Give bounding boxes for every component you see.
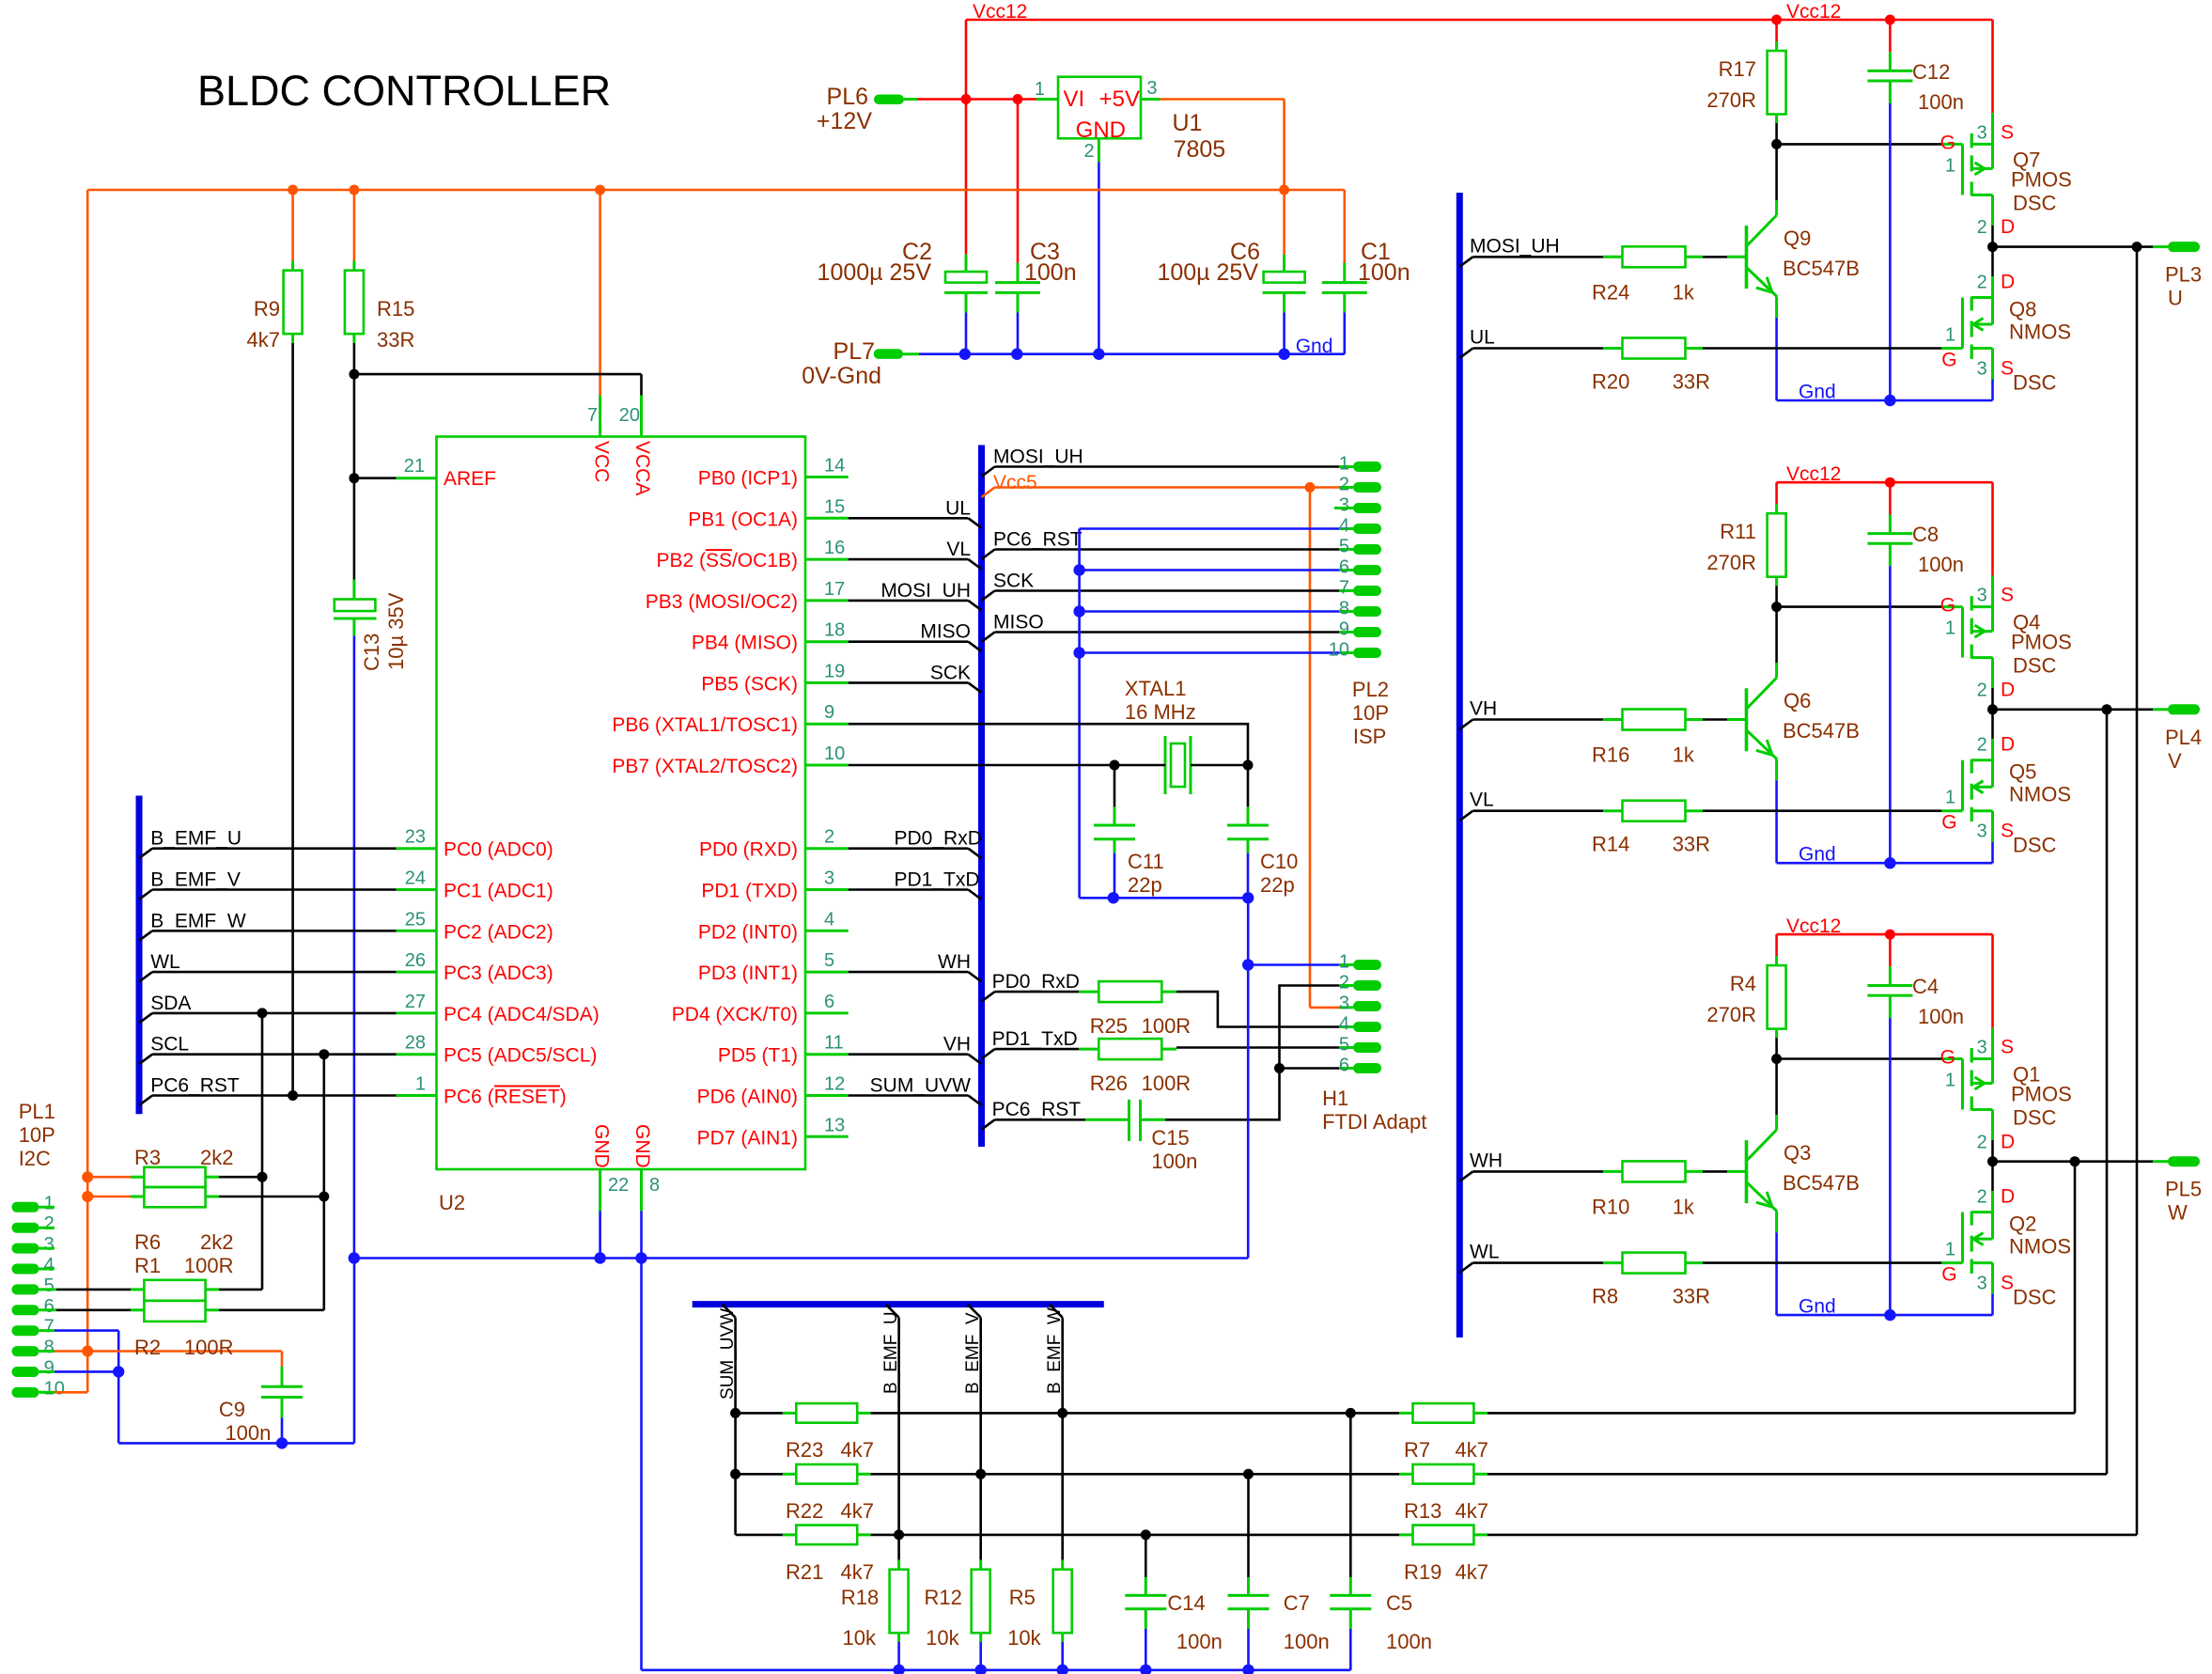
wire gnd up to rail	[353, 1259, 356, 1444]
node C11 gnd	[1108, 892, 1119, 903]
transistor Q7 PMOS DSC	[1941, 143, 1962, 146]
svg-text:V: V	[2168, 749, 2182, 773]
svg-text:PD7 (AIN1): PD7 (AIN1)	[697, 1127, 798, 1149]
svg-text:DSC: DSC	[2013, 654, 2057, 678]
svg-text:1: 1	[415, 1074, 426, 1095]
capacitor C4 100n	[1889, 934, 1892, 966]
wire WH from PD3	[849, 971, 969, 974]
svg-text:4k7: 4k7	[247, 328, 280, 352]
svg-text:PD2 (INT0): PD2 (INT0)	[698, 921, 798, 943]
svg-text:10: 10	[1329, 640, 1349, 661]
svg-text:6: 6	[1339, 557, 1349, 578]
svg-text:4k7: 4k7	[1456, 1499, 1488, 1523]
wire output W	[1993, 1160, 2076, 1163]
svg-text:PB5 (SCK): PB5 (SCK)	[701, 673, 798, 695]
capacitor C13 10u 35V	[352, 580, 355, 600]
svg-text:1k: 1k	[1673, 743, 1695, 767]
svg-text:DSC: DSC	[2013, 371, 2057, 395]
pin 22 GND	[599, 1169, 601, 1212]
pin 15 PB1 (OC1A)	[805, 517, 849, 520]
svg-text:4k7: 4k7	[841, 1499, 874, 1523]
svg-text:+5V: +5V	[1099, 86, 1140, 112]
svg-text:6: 6	[824, 992, 834, 1012]
svg-text:6: 6	[1339, 1056, 1349, 1076]
svg-text:WL: WL	[150, 951, 180, 973]
svg-text:1: 1	[44, 1193, 55, 1213]
svg-text:U: U	[2168, 287, 2183, 310]
svg-text:24: 24	[405, 868, 426, 889]
svg-text:C13: C13	[360, 634, 383, 671]
svg-text:SUM_UVW: SUM_UVW	[718, 1308, 738, 1400]
svg-text:B_EMF_U: B_EMF_U	[150, 828, 241, 850]
svg-text:R13: R13	[1404, 1499, 1441, 1523]
svg-text:R5: R5	[1009, 1586, 1036, 1609]
svg-text:PD1 (TXD): PD1 (TXD)	[701, 881, 798, 902]
svg-text:100n: 100n	[1151, 1150, 1197, 1173]
svg-text:2: 2	[1977, 680, 1987, 700]
svg-text:4k7: 4k7	[1456, 1560, 1488, 1584]
svg-text:Vcc12: Vcc12	[1786, 1, 1841, 23]
node gate Q7	[1771, 139, 1782, 149]
svg-text:NMOS: NMOS	[2009, 783, 2071, 806]
svg-text:3: 3	[1977, 122, 1987, 143]
svg-text:1: 1	[1945, 155, 1955, 176]
svg-text:PD4 (XCK/T0): PD4 (XCK/T0)	[672, 1004, 798, 1025]
capacitor C6 100u 25V	[1283, 255, 1285, 272]
wire B_EMF_W drop	[1050, 1305, 1063, 1318]
svg-text:C11: C11	[1128, 850, 1164, 873]
wire PD0_RxD to R25	[982, 992, 995, 1001]
wire U2 GND pin22 to rail	[599, 1212, 601, 1259]
svg-text:6: 6	[44, 1296, 55, 1317]
pin 13 PD7 (AIN1)	[805, 1135, 849, 1138]
wire R7 to phase W	[1488, 1412, 2075, 1415]
node gnd C2	[959, 349, 971, 360]
capacitor C14 100n	[1145, 1535, 1147, 1577]
pin 27 PC4 (ADC4/SDA)	[397, 1011, 437, 1014]
svg-text:W: W	[2168, 1201, 2188, 1225]
resistor R4 270R	[1775, 934, 1778, 956]
svg-text:Q2: Q2	[2009, 1212, 2036, 1236]
svg-text:7: 7	[44, 1317, 55, 1338]
svg-text:PD3 (INT1): PD3 (INT1)	[698, 962, 798, 984]
resistor R21 4k7	[736, 1534, 783, 1537]
svg-text:B_EMF_W: B_EMF_W	[1045, 1307, 1065, 1394]
wire AREF	[354, 477, 397, 479]
wire gate Q5	[1703, 809, 1941, 812]
pin 7 VCC	[599, 396, 601, 437]
svg-text:PMOS: PMOS	[2011, 1083, 2072, 1106]
svg-text:B_EMF_V: B_EMF_V	[150, 869, 241, 891]
svg-text:GND: GND	[1076, 117, 1126, 143]
svg-text:22p: 22p	[1260, 873, 1295, 897]
wire SUM_UVW from PD6	[849, 1094, 969, 1097]
svg-text:Q5: Q5	[2009, 760, 2036, 784]
svg-text:D: D	[2001, 1186, 2015, 1208]
node R6/R2 SCL	[319, 1192, 329, 1202]
svg-text:10: 10	[44, 1378, 65, 1399]
pin 10 PB7 (XTAL2/TOSC2)	[805, 764, 849, 767]
transistor Q9 BC547B	[1459, 257, 1472, 266]
svg-text:33R: 33R	[1673, 370, 1710, 394]
svg-text:G: G	[1941, 350, 1956, 371]
microcontroller U2	[437, 437, 806, 1170]
wire H1 pin1 gnd	[1242, 959, 1254, 970]
svg-text:SDA: SDA	[150, 993, 191, 1014]
net Vcc12 stub V	[1777, 481, 1993, 484]
wire MISO to PL2 pin9	[982, 633, 995, 642]
svg-text:R25: R25	[1090, 1014, 1128, 1038]
wire C3 riser	[1017, 100, 1020, 263]
svg-text:U1: U1	[1173, 110, 1203, 136]
svg-text:100n: 100n	[1386, 1630, 1432, 1653]
svg-text:7: 7	[587, 405, 598, 426]
net Gnd V local	[1777, 862, 1993, 865]
terminal PL6 +12V	[874, 95, 904, 105]
pin 21 AREF	[397, 477, 437, 479]
node C14 tap	[1141, 1529, 1151, 1540]
pin3 stub PL2	[1334, 507, 1353, 509]
svg-text:100R: 100R	[1142, 1014, 1192, 1038]
svg-text:PC2 (ADC2): PC2 (ADC2)	[444, 921, 553, 943]
svg-text:SCL: SCL	[150, 1034, 189, 1056]
svg-text:Q8: Q8	[2009, 298, 2036, 321]
node Vcc5 R6	[82, 1191, 93, 1202]
svg-text:C8: C8	[1912, 523, 1939, 546]
resistor R12 10k	[979, 1560, 982, 1571]
wire R4 to gate junction	[1775, 1038, 1778, 1058]
svg-text:1k: 1k	[1673, 280, 1695, 304]
node C10 gnd	[1242, 892, 1254, 903]
svg-text:BC547B: BC547B	[1783, 719, 1860, 743]
wire SCL to PC5	[139, 1055, 152, 1064]
resistor R9 4k7	[291, 190, 294, 261]
wire phase U feedback vertical	[2136, 247, 2139, 1535]
svg-text:8: 8	[44, 1338, 55, 1358]
net gnd rail	[354, 1257, 1248, 1259]
svg-text:Vcc5: Vcc5	[993, 472, 1037, 493]
wire Vcc5 to U2 VCC pin	[599, 190, 601, 396]
net Gnd U local	[1777, 399, 1993, 402]
transistor Q6 BC547B	[1459, 720, 1472, 729]
pin 1 PC6 (RESET)	[397, 1094, 437, 1097]
svg-text:DSC: DSC	[2013, 834, 2057, 857]
svg-text:9: 9	[1339, 619, 1349, 640]
wire R6 to SCL	[206, 1196, 219, 1198]
svg-text:B_EMF_V: B_EMF_V	[963, 1312, 983, 1394]
svg-text:R6: R6	[134, 1230, 161, 1254]
pin 25 PC2 (ADC2)	[397, 930, 437, 932]
capacitor C2 1000u 25V	[965, 100, 968, 255]
capacitor C12 100n	[1889, 20, 1892, 52]
wire R15 to AREF/C13	[353, 343, 356, 580]
svg-text:R12: R12	[925, 1586, 962, 1609]
svg-text:DSC: DSC	[2013, 1106, 2057, 1130]
svg-text:2: 2	[1977, 1132, 1987, 1152]
svg-text:PB6 (XTAL1/TOSC1): PB6 (XTAL1/TOSC1)	[612, 714, 798, 736]
capacitor C10 22p	[1247, 765, 1250, 806]
svg-text:BC547B: BC547B	[1783, 1171, 1860, 1195]
wire R26 to H1 pin5	[1161, 1048, 1176, 1051]
svg-text:10: 10	[824, 743, 845, 764]
svg-text:R2: R2	[134, 1336, 161, 1359]
svg-text:100R: 100R	[184, 1336, 234, 1359]
wire PL1 pin8 Vcc5	[39, 1350, 55, 1353]
svg-text:2: 2	[1977, 1187, 1987, 1208]
svg-text:R21: R21	[786, 1560, 823, 1584]
transistor Q5 NMOS DSC	[1991, 710, 1994, 739]
svg-text:PL5: PL5	[2165, 1178, 2202, 1201]
svg-text:XTAL1: XTAL1	[1125, 677, 1187, 700]
svg-text:33R: 33R	[1673, 833, 1710, 856]
wire SDA to PC4	[139, 1013, 152, 1023]
node B_EMF_W R23 line	[1057, 1408, 1067, 1418]
svg-text:27: 27	[405, 992, 426, 1012]
pin 4 PD2 (INT0)	[805, 930, 849, 932]
wire WL to PC3	[139, 972, 152, 981]
svg-text:B_EMF_W: B_EMF_W	[150, 910, 246, 931]
svg-text:270R: 270R	[1706, 88, 1756, 112]
svg-text:10P: 10P	[19, 1123, 55, 1147]
svg-text:1k: 1k	[1673, 1195, 1695, 1218]
svg-text:DSC: DSC	[2013, 1286, 2057, 1309]
capacitor C11 22p	[1114, 765, 1116, 806]
svg-text:R16: R16	[1592, 743, 1629, 767]
svg-text:1: 1	[1339, 952, 1349, 973]
terminal PL5 W	[2168, 1156, 2200, 1166]
svg-text:C14: C14	[1167, 1591, 1205, 1615]
svg-text:R3: R3	[134, 1146, 161, 1169]
svg-text:270R: 270R	[1706, 551, 1756, 574]
node Vcc5 at R9	[288, 185, 298, 196]
svg-text:MISO: MISO	[920, 621, 971, 643]
svg-text:PD0 (RXD): PD0 (RXD)	[699, 839, 798, 861]
svg-text:R7: R7	[1404, 1438, 1430, 1462]
node VCCA junction	[349, 369, 359, 380]
overline RESET on PC6	[494, 1086, 560, 1087]
svg-text:100n: 100n	[1358, 259, 1410, 286]
wire U1 +5V pin 3	[1141, 98, 1161, 101]
svg-text:2: 2	[1339, 475, 1349, 495]
svg-text:PL4: PL4	[2165, 726, 2202, 749]
resistor R10 1k	[1623, 1161, 1686, 1181]
svg-text:B_EMF_U: B_EMF_U	[881, 1311, 901, 1394]
svg-text:5: 5	[1339, 537, 1349, 557]
svg-text:+12V: +12V	[817, 108, 872, 134]
svg-text:100n: 100n	[1176, 1630, 1223, 1653]
svg-text:14: 14	[824, 456, 845, 477]
capacitor C9 100n	[281, 1352, 284, 1368]
node C5 tap	[1346, 1408, 1356, 1418]
svg-text:2: 2	[1977, 735, 1987, 756]
svg-text:G: G	[1940, 595, 1955, 617]
net Gnd W local	[1777, 1314, 1993, 1317]
voltage regulator U1 7805	[1058, 77, 1141, 139]
wire gnd drop to rail	[1247, 898, 1250, 1258]
wire PL1 pin6 to R2	[39, 1308, 57, 1311]
svg-text:Gnd: Gnd	[1296, 336, 1333, 357]
svg-text:270R: 270R	[1706, 1003, 1756, 1026]
svg-text:S: S	[2001, 585, 2014, 606]
node SCL junction	[319, 1049, 329, 1059]
wire output V	[1993, 708, 2108, 711]
svg-text:4k7: 4k7	[841, 1560, 874, 1584]
wire VL from PB2	[849, 558, 969, 561]
wire R22 line to R13	[871, 1473, 1400, 1476]
svg-text:PD5 (T1): PD5 (T1)	[718, 1045, 798, 1067]
svg-text:12: 12	[824, 1074, 845, 1095]
wire R1 to SDA vertical	[206, 1288, 219, 1291]
svg-text:100R: 100R	[1142, 1072, 1192, 1095]
svg-text:PL7: PL7	[833, 338, 875, 365]
resistor R14 33R	[1459, 811, 1472, 821]
node gnd C3	[1011, 349, 1022, 360]
svg-text:Vcc12: Vcc12	[973, 1, 1027, 23]
pin 16 PB2 (SS/OC1B)	[805, 558, 849, 561]
svg-text:GND: GND	[631, 1124, 653, 1168]
pin 2 PD0 (RXD)	[805, 847, 849, 850]
wire PL1 pin7 gnd	[39, 1329, 55, 1332]
svg-text:R10: R10	[1592, 1195, 1629, 1218]
pin 19 PB5 (SCK)	[805, 681, 849, 684]
wire PB6 to crystal	[849, 724, 1248, 765]
svg-text:PC6_RST: PC6_RST	[992, 1099, 1082, 1120]
svg-text:100n: 100n	[1918, 90, 1964, 114]
svg-text:VI: VI	[1064, 86, 1085, 112]
node Vcc5 at C6	[1279, 185, 1289, 196]
node Vcc5 pin8	[82, 1346, 93, 1357]
svg-text:R15: R15	[377, 297, 414, 321]
resistor R6 2k2	[87, 1196, 131, 1198]
svg-text:1: 1	[1945, 325, 1955, 346]
node Vcc12 at R17	[1771, 15, 1782, 25]
wire Vcc5 to PL2 pin2	[982, 488, 995, 497]
svg-text:1000µ 25V: 1000µ 25V	[818, 259, 932, 286]
net Vcc5 rail	[87, 189, 1345, 192]
wire R25 to H1 pin4	[1161, 991, 1176, 993]
svg-text:7: 7	[1339, 578, 1349, 599]
svg-text:19: 19	[824, 661, 845, 681]
svg-text:3: 3	[1146, 78, 1157, 99]
svg-text:23: 23	[405, 827, 426, 848]
svg-text:AREF: AREF	[444, 468, 496, 490]
capacitor C1 100n	[1344, 190, 1347, 263]
svg-text:C4: C4	[1912, 975, 1939, 998]
wire R9 to PC6_RST net	[291, 343, 294, 1096]
node crystal left	[1110, 760, 1120, 771]
wire gate Q4	[1777, 605, 1942, 608]
net Vcc12 top rail	[966, 19, 1993, 22]
svg-text:1: 1	[1945, 788, 1955, 808]
svg-text:UL: UL	[945, 497, 971, 519]
wire MOSI_UH from PB3	[849, 600, 969, 602]
pin 28 PC5 (ADC5/SCL)	[397, 1053, 437, 1056]
svg-text:11: 11	[824, 1033, 844, 1054]
node gnd C12	[1884, 395, 1895, 406]
wire B_EMF_V drop	[968, 1305, 981, 1318]
wire MISO from PB4	[849, 640, 969, 643]
resistor R23 4k7	[736, 1412, 783, 1415]
svg-text:PC6 (RESET): PC6 (RESET)	[444, 1087, 567, 1108]
svg-text:VH: VH	[943, 1034, 971, 1056]
svg-text:R19: R19	[1404, 1560, 1441, 1584]
svg-text:Gnd: Gnd	[1799, 382, 1836, 403]
svg-text:GND: GND	[591, 1124, 613, 1168]
svg-text:10µ 35V: 10µ 35V	[384, 592, 408, 670]
svg-text:3: 3	[44, 1234, 55, 1255]
svg-text:Q3: Q3	[1784, 1141, 1811, 1165]
svg-text:4k7: 4k7	[841, 1438, 874, 1462]
svg-text:PMOS: PMOS	[2011, 167, 2072, 191]
resistor R13 4k7	[1399, 1473, 1412, 1476]
svg-text:PB1 (OC1A): PB1 (OC1A)	[688, 508, 798, 530]
node gnd U1	[1093, 349, 1104, 360]
svg-text:PC3 (ADC3): PC3 (ADC3)	[444, 962, 553, 984]
node output to feedback W	[2070, 1156, 2080, 1166]
net Vcc12 stub W	[1777, 933, 1993, 936]
svg-text:BLDC CONTROLLER: BLDC CONTROLLER	[197, 67, 611, 115]
svg-text:U2: U2	[439, 1191, 465, 1214]
svg-text:PMOS: PMOS	[2011, 631, 2072, 654]
svg-text:G: G	[1941, 812, 1956, 834]
node Vcc5 to H1	[1305, 482, 1316, 493]
svg-text:MOSI_UH: MOSI_UH	[1470, 235, 1560, 257]
svg-text:SCK: SCK	[930, 662, 971, 683]
svg-text:PD1_TxD: PD1_TxD	[992, 1028, 1078, 1050]
resistor R11 270R	[1775, 482, 1778, 504]
svg-text:8: 8	[1339, 599, 1349, 619]
svg-text:R22: R22	[786, 1499, 823, 1523]
svg-text:R18: R18	[841, 1586, 879, 1609]
net Gnd power rail	[903, 352, 919, 355]
resistor R1 100R	[144, 1280, 205, 1301]
svg-text:R14: R14	[1592, 833, 1629, 856]
wire SCK from PB5	[849, 681, 969, 684]
svg-text:1: 1	[1339, 454, 1349, 475]
bus sensor/I2C vertical	[136, 796, 143, 1115]
node H1 pin6 junction	[1274, 1063, 1285, 1073]
svg-text:R8: R8	[1592, 1285, 1618, 1308]
wire PC6_RST to PL2 pin5	[982, 550, 995, 559]
capacitor C3 100n	[1017, 263, 1020, 283]
node C9 gnd	[276, 1437, 288, 1448]
svg-text:S: S	[2001, 121, 2014, 143]
node output to feedback V	[2102, 704, 2112, 714]
svg-text:100n: 100n	[1024, 259, 1077, 286]
capacitor C8 100n	[1889, 482, 1892, 514]
svg-text:R1: R1	[134, 1254, 161, 1277]
node gnd rail left	[349, 1252, 360, 1263]
svg-text:MOSI_UH: MOSI_UH	[993, 446, 1083, 468]
wire PC6_RST to C15	[982, 1119, 995, 1129]
svg-text:Q6: Q6	[1784, 689, 1811, 712]
wire U2 GND pin8 to rail and bottom	[640, 1212, 643, 1259]
svg-text:R9: R9	[254, 297, 280, 321]
svg-text:5: 5	[1339, 1035, 1349, 1056]
pin 9 PB6 (XTAL1/TOSC1)	[805, 723, 849, 726]
svg-text:PD1_TxD: PD1_TxD	[895, 869, 980, 891]
wire UL from PB1	[849, 517, 969, 520]
wire PD1_TxD to R26	[982, 1049, 995, 1058]
svg-text:2k2: 2k2	[200, 1230, 233, 1254]
svg-text:100n: 100n	[1918, 1005, 1964, 1028]
svg-text:1: 1	[1945, 618, 1955, 639]
svg-text:PC0 (ADC0): PC0 (ADC0)	[444, 839, 553, 861]
svg-text:D: D	[2001, 734, 2015, 756]
wire SUM_UVW drop	[723, 1305, 736, 1318]
resistor R17 270R	[1775, 20, 1778, 41]
svg-text:PC6_RST: PC6_RST	[150, 1075, 240, 1097]
